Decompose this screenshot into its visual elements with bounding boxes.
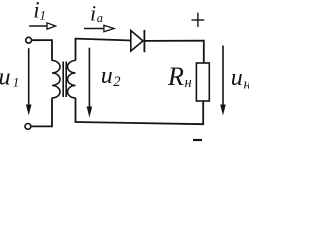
transformer secondary winding: [68, 61, 76, 99]
wire primary left vertical upper: [51, 39, 53, 60]
diode VD cathode bar: [143, 30, 145, 52]
minus sign: [193, 139, 202, 141]
wire primary top: [32, 39, 52, 41]
current arrow ia: [84, 25, 114, 31]
voltage arrow u1: [26, 48, 32, 115]
svg-text:н: н: [244, 76, 250, 92]
wire secondary left vertical upper: [75, 38, 77, 61]
voltage arrow u2: [87, 48, 93, 118]
svg-text:i: i: [90, 1, 96, 26]
plus sign: [192, 13, 205, 27]
wire top right corner down to resistor: [203, 40, 205, 64]
current arrow i1: [29, 23, 55, 29]
wire diode to top right corner: [144, 40, 203, 42]
terminal (lower left input): [25, 124, 31, 130]
svg-text:1: 1: [13, 75, 19, 90]
wire primary left vertical lower: [51, 98, 53, 127]
wire secondary top (to diode): [76, 39, 132, 41]
svg-text:u: u: [0, 65, 11, 91]
voltage arrow un: [220, 46, 226, 116]
svg-text:a: a: [97, 11, 103, 25]
wire secondary bottom: [75, 122, 204, 124]
terminal (upper left input): [26, 37, 32, 43]
transformer core line right: [65, 62, 67, 98]
svg-text:2: 2: [113, 74, 120, 90]
resistor Rn body: [196, 63, 209, 101]
svg-text:н: н: [185, 75, 192, 91]
wire resistor bottom lead: [202, 101, 204, 125]
svg-text:u: u: [231, 65, 243, 91]
transformer primary winding: [52, 61, 60, 99]
svg-text:u: u: [101, 63, 113, 89]
svg-text:R: R: [167, 62, 184, 91]
wire secondary left vertical lower: [75, 98, 77, 122]
diode VD anode triangle: [131, 31, 143, 52]
svg-text:1: 1: [40, 8, 47, 23]
transformer core line left: [62, 62, 64, 98]
wire primary bottom: [31, 125, 53, 127]
